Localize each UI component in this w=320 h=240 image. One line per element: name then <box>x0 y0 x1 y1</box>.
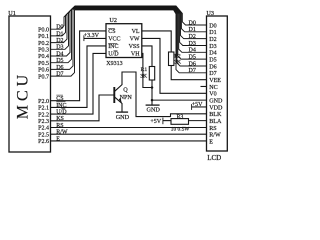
svg-text:U/D: U/D <box>56 110 67 116</box>
svg-text:P2.3: P2.3 <box>38 119 49 125</box>
svg-text:P0.2: P0.2 <box>38 41 49 47</box>
svg-text:D3: D3 <box>56 45 63 51</box>
wire R3 to LCD BLA <box>189 120 207 122</box>
svg-text:P0.4: P0.4 <box>38 54 49 60</box>
svg-text:NC: NC <box>209 85 217 91</box>
wire CS P2 to U2 <box>51 31 107 101</box>
svg-text:D6: D6 <box>189 61 196 67</box>
LCD U3 box <box>207 16 228 151</box>
svg-text:VH: VH <box>131 52 140 58</box>
svg-text:CS: CS <box>108 29 115 35</box>
wire VH to ground net <box>142 53 152 87</box>
transistor Q emitter with arrow <box>115 97 122 112</box>
svg-text:V0: V0 <box>209 92 216 98</box>
svg-text:D4: D4 <box>56 51 63 57</box>
ground under Q <box>116 111 128 113</box>
svg-text:P2.1: P2.1 <box>38 106 49 112</box>
svg-text:E: E <box>209 140 213 146</box>
svg-text:RS: RS <box>209 126 217 132</box>
wire U/D P2 to U2 <box>51 53 107 114</box>
svg-text:+5V: +5V <box>150 119 161 125</box>
svg-text:GND: GND <box>209 99 223 105</box>
junction dot ground <box>151 99 154 102</box>
svg-text:VW: VW <box>130 37 140 43</box>
svg-text:U1: U1 <box>8 10 16 17</box>
svg-text:D2: D2 <box>189 34 196 40</box>
wire VW to LCD V0 <box>142 38 207 93</box>
LCD NC pin stub <box>201 85 207 87</box>
svg-text:R1: R1 <box>141 67 148 73</box>
transistor Q collector <box>115 72 207 117</box>
svg-text:P0.3: P0.3 <box>38 48 49 54</box>
svg-text:D6: D6 <box>209 64 216 70</box>
svg-text:CS: CS <box>56 96 63 102</box>
wire VL to R2 <box>142 31 171 52</box>
svg-text:D7: D7 <box>209 71 216 77</box>
svg-text:D5: D5 <box>56 58 63 64</box>
svg-text:R3: R3 <box>177 114 184 120</box>
wire D6 bus P0.6 to LCD D6 <box>51 9 207 69</box>
svg-text:D5: D5 <box>209 58 216 64</box>
svg-text:M C U: M C U <box>15 74 32 119</box>
svg-text:P2.0: P2.0 <box>38 99 49 105</box>
svg-text:D6: D6 <box>56 65 63 71</box>
svg-text:KS: KS <box>56 116 64 122</box>
svg-text:D0: D0 <box>209 23 216 29</box>
wire R2 to LCD VEE <box>171 66 206 80</box>
svg-text:3K: 3K <box>174 60 181 66</box>
svg-text:D7: D7 <box>56 72 63 78</box>
wire VSS to R1 <box>142 46 152 67</box>
svg-text:P0.5: P0.5 <box>38 61 49 67</box>
wire R/W P2 to LCD <box>51 133 207 135</box>
svg-text:D3: D3 <box>189 41 196 47</box>
wire D2 bus P0.2 to LCD D2 <box>51 7 207 43</box>
svg-text:U/D: U/D <box>108 52 119 58</box>
wire E P2 to LCD <box>51 140 207 142</box>
svg-text:VCC: VCC <box>108 37 120 43</box>
svg-text:10 0.5W: 10 0.5W <box>171 126 190 132</box>
svg-text:VL: VL <box>132 29 140 35</box>
svg-text:D1: D1 <box>209 30 216 36</box>
svg-text:R/W: R/W <box>209 133 221 139</box>
wire R1 to ground junction <box>151 80 153 100</box>
svg-text:R2: R2 <box>174 54 181 60</box>
digital pot U2 box <box>106 24 142 58</box>
svg-text:X9313: X9313 <box>106 61 122 67</box>
svg-text:BLA: BLA <box>209 119 222 125</box>
svg-text:GND: GND <box>116 114 130 121</box>
svg-text:INC: INC <box>56 103 66 109</box>
svg-text:D0: D0 <box>56 25 63 31</box>
svg-text:D5: D5 <box>189 55 196 61</box>
wire RS P2 to LCD <box>51 127 207 129</box>
svg-text:P2.4: P2.4 <box>38 126 49 132</box>
svg-text:LCD: LCD <box>207 154 221 162</box>
wire D7 bus P0.7 to LCD D7 <box>51 10 207 76</box>
svg-text:VDD: VDD <box>209 105 223 111</box>
wire D0 bus P0.0 to LCD D0 <box>51 6 207 29</box>
svg-text:E: E <box>56 136 60 142</box>
svg-text:P0.7: P0.7 <box>38 74 49 80</box>
resistor R2 <box>169 52 174 66</box>
wire D3 bus P0.3 to LCD D3 <box>51 8 207 50</box>
ground symbol net <box>151 100 153 105</box>
svg-text:BLK: BLK <box>209 112 222 118</box>
transistor Q base bar <box>113 87 115 103</box>
resistor R3 <box>171 119 189 125</box>
svg-text:P0.0: P0.0 <box>38 27 49 33</box>
svg-text:VSS: VSS <box>129 44 140 50</box>
svg-text:D1: D1 <box>189 27 196 33</box>
MCU U1 box <box>9 16 51 152</box>
svg-text:P2.5: P2.5 <box>38 132 49 138</box>
svg-text:GND: GND <box>146 107 160 114</box>
svg-text:P2.2: P2.2 <box>38 112 49 118</box>
svg-text:VEE: VEE <box>209 78 221 84</box>
svg-text:D4: D4 <box>209 51 216 57</box>
svg-text:3K: 3K <box>140 73 147 79</box>
svg-text:U3: U3 <box>206 10 214 17</box>
svg-text:R/W: R/W <box>56 130 68 136</box>
wire +3.3V to U2 VCC <box>84 37 106 39</box>
resistor R1 <box>149 67 154 81</box>
wire INC P2 to U2 <box>51 46 107 108</box>
svg-text:P2.6: P2.6 <box>38 139 49 145</box>
svg-text:D2: D2 <box>209 37 216 43</box>
junction dot VH/R1 <box>151 86 154 89</box>
svg-text:D4: D4 <box>189 48 196 54</box>
wire D4 bus P0.4 to LCD D4 <box>51 8 207 56</box>
svg-text:D1: D1 <box>56 31 63 37</box>
svg-text:INC: INC <box>108 44 118 50</box>
svg-text:P0.6: P0.6 <box>38 68 49 74</box>
svg-text:D0: D0 <box>189 20 196 26</box>
svg-text:D7: D7 <box>189 68 196 74</box>
svg-text:RS: RS <box>56 123 63 129</box>
wire ground to LCD GND <box>152 99 207 101</box>
wire D5 bus P0.5 to LCD D5 <box>51 9 207 63</box>
svg-text:Q: Q <box>123 87 128 94</box>
svg-text:NPN: NPN <box>120 95 133 101</box>
svg-text:D3: D3 <box>209 44 216 50</box>
svg-text:U2: U2 <box>109 17 117 24</box>
svg-text:P0.1: P0.1 <box>38 34 49 40</box>
wire KS P2.3 to Q1 base <box>51 95 114 121</box>
wire +5V to R3 <box>163 120 171 122</box>
svg-text:D2: D2 <box>56 38 63 44</box>
wire D1 bus P0.1 to LCD D1 <box>51 7 207 36</box>
wire +5V to LCD VDD <box>192 106 207 108</box>
